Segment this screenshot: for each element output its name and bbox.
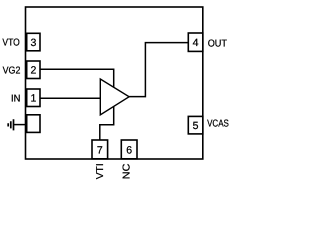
svg-text:3: 3 (30, 37, 36, 49)
ground pad box (27, 115, 40, 133)
wire VG2 to amplifier gate2 (40, 69, 114, 87)
svg-text:OUT: OUT (208, 38, 227, 49)
amplifier A1 (100, 79, 129, 115)
svg-text:VTI: VTI (95, 163, 106, 179)
wire IN to amplifier input (40, 97, 100, 99)
pin 6 box (NC) (121, 140, 137, 159)
pin 4 box (OUT) (188, 33, 203, 51)
svg-text:6: 6 (126, 144, 132, 156)
svg-text:VTO: VTO (2, 38, 20, 49)
svg-text:VG2: VG2 (3, 66, 21, 77)
wire ground to ground pad (14, 124, 27, 126)
pin 7 box (VTI) (92, 140, 108, 159)
svg-text:2: 2 (30, 65, 36, 77)
wire amplifier output to pin 4 (129, 43, 188, 97)
svg-text:5: 5 (193, 120, 199, 132)
pin 5 box (VCAS) (188, 116, 203, 133)
svg-text:VCAS: VCAS (207, 118, 229, 129)
svg-text:IN: IN (11, 93, 20, 104)
svg-text:7: 7 (97, 144, 103, 156)
wire amplifier to pin 7 (100, 106, 114, 140)
pin 1 box (IN) (27, 89, 40, 107)
svg-text:4: 4 (193, 37, 199, 49)
ground symbol (8, 119, 13, 130)
pin 3 box (VTO) (27, 33, 40, 51)
svg-text:NC: NC (122, 164, 133, 180)
IC package body (26, 7, 203, 159)
svg-text:1: 1 (30, 93, 36, 105)
pin 2 box (VG2) (27, 61, 40, 79)
